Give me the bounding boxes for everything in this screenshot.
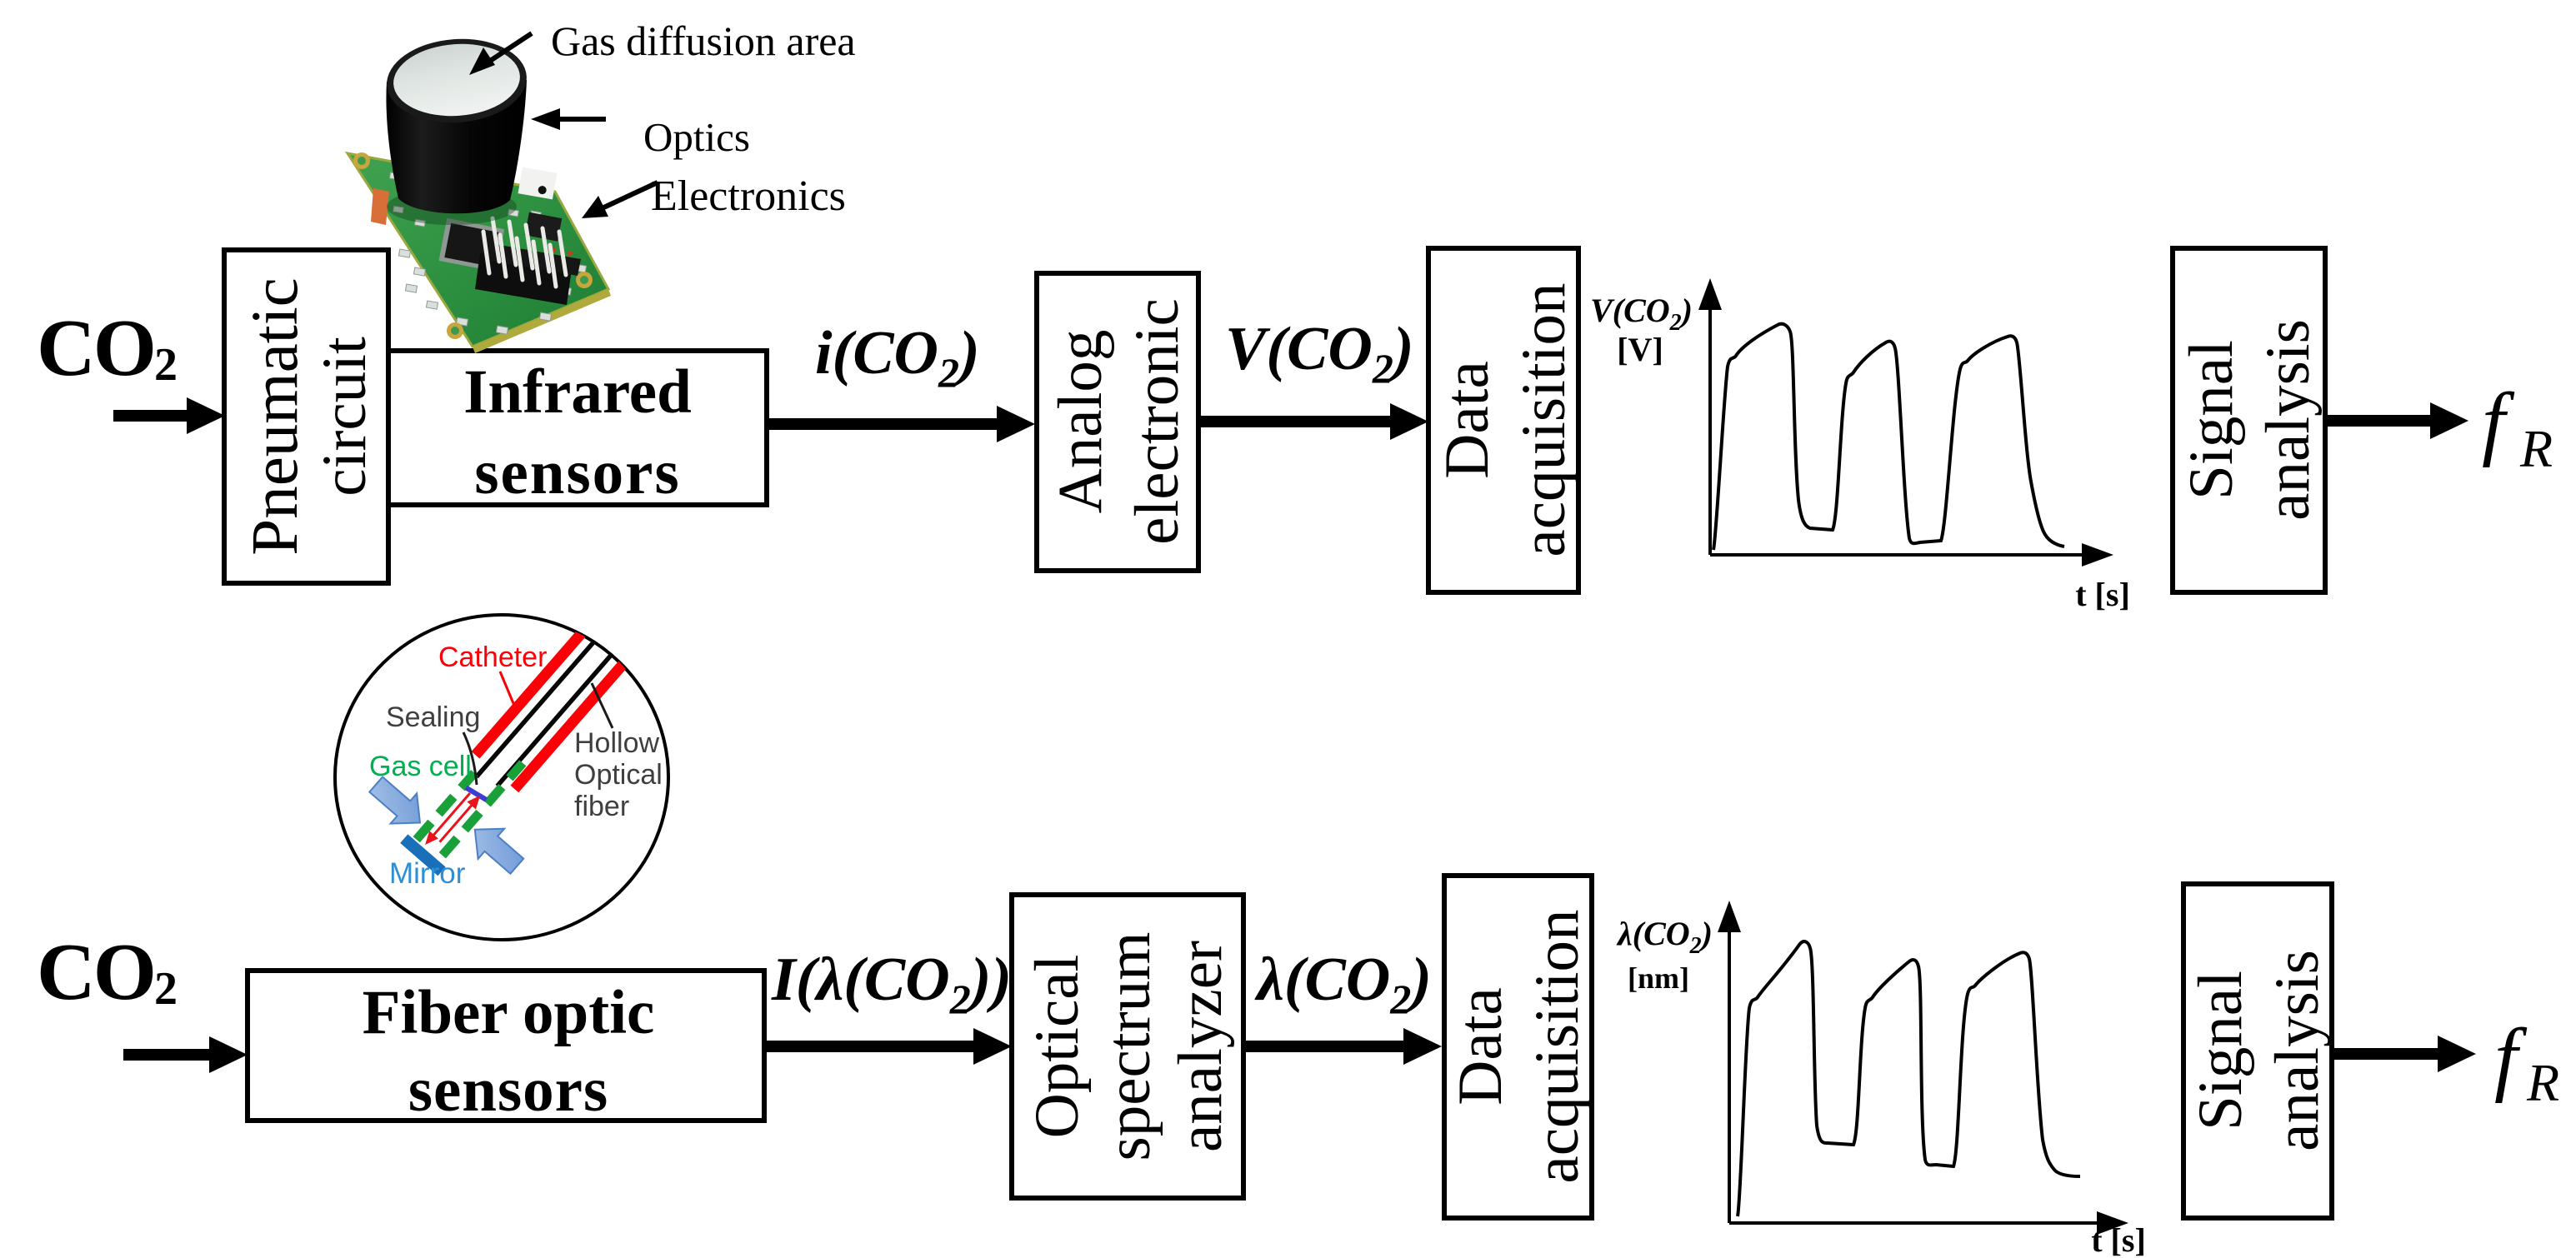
svg-text:Mirror: Mirror: [389, 857, 466, 890]
svg-text:sensors: sensors: [474, 438, 680, 507]
box Optical spectrum analyzer: [1012, 895, 1243, 1198]
hollow optical fiber wall lower: [498, 619, 643, 786]
wire arrow Signal analysis to fR (top): [2325, 402, 2468, 439]
svg-text:Gas cell: Gas cell: [369, 751, 472, 782]
hollow optical fiber wall upper: [477, 605, 627, 777]
svg-text:fiber: fiber: [574, 791, 629, 822]
inset circle: [335, 615, 668, 940]
svg-text:Hollow: Hollow: [574, 727, 659, 759]
svg-text:acquisition: acquisition: [1523, 909, 1592, 1183]
box Signal analysis (top): [2173, 248, 2325, 592]
box Analog electronic: [1037, 273, 1198, 571]
bottom graph x-axis: [1729, 1221, 2103, 1225]
box Infrared sensors: [388, 351, 767, 505]
wire arrow Optical spectrum analyzer to Data acquisition (bottom): [1243, 1028, 1442, 1065]
svg-text:Gas diffusion area: Gas diffusion area: [551, 17, 856, 64]
svg-text:spectrum: spectrum: [1094, 932, 1163, 1161]
svg-text:acquisition: acquisition: [1509, 282, 1578, 557]
svg-text:Data: Data: [1446, 987, 1515, 1106]
svg-text:Fiber optic: Fiber optic: [363, 978, 655, 1047]
catheter red wall lower: [514, 629, 653, 789]
light beam line down: [431, 793, 470, 838]
box Data acquisition (top): [1428, 248, 1578, 592]
svg-text:[V]: [V]: [1617, 331, 1663, 368]
svg-text:Data: Data: [1433, 361, 1502, 479]
catheter red wall upper: [476, 595, 615, 755]
arrow to optics: [557, 117, 606, 122]
bottom graph y-axis: [1728, 926, 1731, 1223]
box Fiber optic sensors: [248, 971, 764, 1121]
gas cell dashed wall upper: [417, 773, 475, 840]
svg-text:Analog: Analog: [1046, 330, 1115, 514]
top graph y-axis: [1708, 303, 1712, 555]
arrow to gas diffusion area: [480, 33, 532, 67]
svg-text:Signal: Signal: [2186, 971, 2255, 1131]
capnogram waveform (bottom graph): [1738, 941, 2080, 1216]
svg-text:I(λ(CO2)): I(λ(CO2)): [771, 946, 1012, 1022]
sensor photo PCB board: [348, 153, 608, 347]
gas cell dashed wall lower: [443, 763, 523, 856]
leader hollow optical fiber: [592, 683, 613, 728]
capnogram waveform (top graph): [1713, 324, 2064, 550]
wire arrow CO2 to Pneumatic circuit: [113, 397, 225, 434]
IC chip large: [438, 218, 504, 272]
svg-text:R: R: [2519, 419, 2553, 478]
orange connector on PCB left edge: [371, 188, 389, 225]
svg-text:Catheter: Catheter: [438, 641, 547, 673]
svg-text:analyzer: analyzer: [1166, 941, 1235, 1152]
red via dots: [549, 247, 573, 264]
wire arrow Analog electronic to Data acquisition (top): [1198, 403, 1428, 440]
svg-text:Optical: Optical: [1023, 955, 1092, 1139]
svg-text:Signal: Signal: [2177, 340, 2246, 500]
svg-text:circuit: circuit: [310, 337, 379, 497]
wire arrow CO2 to Fiber optic sensors: [123, 1036, 248, 1073]
top graph x-axis: [1710, 553, 2088, 557]
svg-text:[nm]: [nm]: [1628, 961, 1689, 995]
wire arrow Signal analysis to fR (bottom): [2332, 1036, 2476, 1072]
svg-text:Infrared: Infrared: [463, 357, 692, 427]
pin header black blocks: [475, 253, 572, 305]
sealing: [466, 785, 486, 803]
svg-text:analysis: analysis: [2263, 950, 2332, 1151]
sensor cylinder top face: [391, 40, 523, 120]
leader catheter: [500, 671, 515, 707]
wire arrow Fiber optic sensors to Optical spectrum analyzer: [764, 1028, 1012, 1065]
svg-text:Pneumatic: Pneumatic: [239, 277, 312, 555]
arrow to electronics: [597, 182, 658, 211]
sensor cylinder body: [386, 80, 527, 213]
svg-text:R: R: [2526, 1053, 2559, 1112]
box Signal analysis (bottom): [2183, 884, 2332, 1218]
small SMD components: [389, 172, 586, 334]
leader sealing: [463, 732, 477, 785]
gas flow arrow upper-left: [363, 769, 433, 837]
svg-text:Electronics: Electronics: [651, 172, 846, 220]
sensor cylinder top rim: [384, 34, 530, 127]
svg-text:analysis: analysis: [2253, 319, 2323, 521]
sensor cylinder shadow: [387, 188, 517, 225]
svg-text:sensors: sensors: [408, 1056, 608, 1125]
svg-text:t [s]: t [s]: [2091, 1221, 2146, 1258]
svg-text:Optics: Optics: [643, 114, 750, 160]
white label with dot on PCB: [518, 167, 558, 200]
svg-text:t [s]: t [s]: [2075, 576, 2130, 613]
light beam line up: [440, 803, 474, 842]
svg-text:electronic: electronic: [1123, 298, 1192, 545]
wire arrow Infrared sensors to Analog electronic: [767, 406, 1035, 442]
svg-text:Sealing: Sealing: [386, 701, 480, 733]
IC chip small: [525, 212, 563, 242]
box Pneumatic circuit: [224, 250, 388, 583]
gas flow arrow lower-right: [462, 815, 530, 881]
gold mounting holes: [353, 152, 593, 339]
mirror: [400, 834, 445, 876]
box Data acquisition (bottom): [1444, 876, 1592, 1218]
header pins (white): [483, 218, 566, 287]
svg-text:Optical: Optical: [574, 759, 663, 791]
